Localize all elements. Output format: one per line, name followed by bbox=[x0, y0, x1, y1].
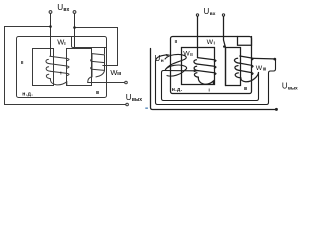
svg-text:вых: вых bbox=[132, 97, 142, 103]
svg-text:вых: вых bbox=[288, 86, 298, 91]
svg-text:вх: вх bbox=[63, 7, 69, 13]
svg-text:н: н bbox=[161, 59, 164, 64]
svg-text:U: U bbox=[57, 3, 63, 12]
svg-text:III: III bbox=[244, 86, 248, 91]
svg-text:III: III bbox=[263, 67, 267, 72]
svg-text:I: I bbox=[209, 88, 210, 93]
svg-text:I: I bbox=[214, 41, 215, 46]
svg-text:III: III bbox=[117, 71, 122, 77]
svg-text:U: U bbox=[126, 93, 132, 102]
svg-text:II: II bbox=[190, 52, 192, 57]
svg-text:III: III bbox=[96, 90, 100, 95]
svg-text:II: II bbox=[21, 60, 24, 65]
svg-text:W: W bbox=[256, 65, 263, 72]
svg-text:U: U bbox=[155, 54, 161, 63]
svg-text:н.д.: н.д. bbox=[172, 87, 183, 93]
svg-text:I: I bbox=[60, 70, 61, 75]
svg-text:вх: вх bbox=[210, 12, 216, 17]
svg-text:W: W bbox=[57, 38, 64, 47]
svg-text:W: W bbox=[207, 39, 214, 46]
svg-text:W: W bbox=[183, 51, 190, 58]
svg-text:U: U bbox=[282, 82, 288, 91]
svg-text:II: II bbox=[175, 39, 177, 44]
svg-text:U: U bbox=[204, 7, 210, 16]
svg-text:н.д.: н.д. bbox=[22, 92, 33, 98]
